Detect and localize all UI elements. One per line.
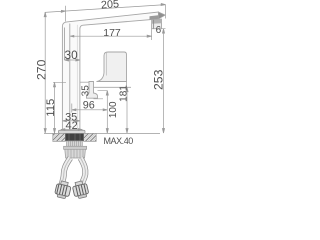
washer — [64, 146, 87, 149]
deck hatch right — [84, 133, 97, 141]
step lines right of handle box — [93, 86, 131, 88]
left supply hose — [62, 158, 70, 184]
right hose end connector — [72, 180, 90, 199]
handle box (cartridge head) — [97, 52, 127, 82]
aerator stem and bell — [87, 82, 98, 99]
dim 35 (body width) — [62, 120, 80, 122]
left hose end connector — [54, 180, 72, 199]
dim 270 — [44, 12, 46, 133]
dim 181 — [126, 87, 128, 133]
base plate — [58, 130, 85, 133]
deck (counter) line — [44, 132, 160, 134]
deck hatch left — [53, 133, 66, 141]
svg-text:181: 181 — [118, 85, 129, 102]
mounting nut (knurled) — [65, 149, 86, 158]
svg-text:253: 253 — [151, 69, 165, 90]
svg-text:205: 205 — [101, 0, 120, 11]
faucet body column and spout arm — [62, 12, 158, 133]
threaded shank through deck (dark) — [65, 134, 83, 141]
svg-text:30: 30 — [65, 48, 79, 62]
dim 100 — [106, 91, 108, 133]
svg-text:MAX.40: MAX.40 — [104, 136, 134, 146]
dimension texts — [34, 0, 165, 146]
dim 177 — [70, 35, 151, 37]
spout arm dark streak near right end — [150, 15, 159, 19]
svg-text:177: 177 — [103, 27, 121, 39]
svg-text:115: 115 — [45, 99, 57, 117]
svg-text:35: 35 — [81, 85, 92, 97]
dim 205 (aligned, slanted) — [45, 5, 166, 13]
dimension lines — [44, 4, 165, 134]
dim 115 — [54, 82, 56, 133]
outlet box at right end of spout — [152, 19, 162, 29]
right supply hose — [81, 158, 86, 184]
dim 42 (base width) — [61, 129, 83, 131]
lip line across under box — [80, 81, 94, 83]
dim 30 — [65, 59, 80, 61]
dim 253 — [163, 29, 165, 133]
svg-text:100: 100 — [108, 101, 119, 118]
spout tip bevel triangle — [158, 12, 165, 19]
dim 96 — [72, 109, 108, 111]
svg-text:42: 42 — [65, 120, 77, 132]
thread below deck — [67, 141, 83, 146]
svg-text:96: 96 — [83, 100, 95, 112]
svg-text:6: 6 — [156, 25, 162, 36]
svg-text:270: 270 — [34, 59, 48, 80]
